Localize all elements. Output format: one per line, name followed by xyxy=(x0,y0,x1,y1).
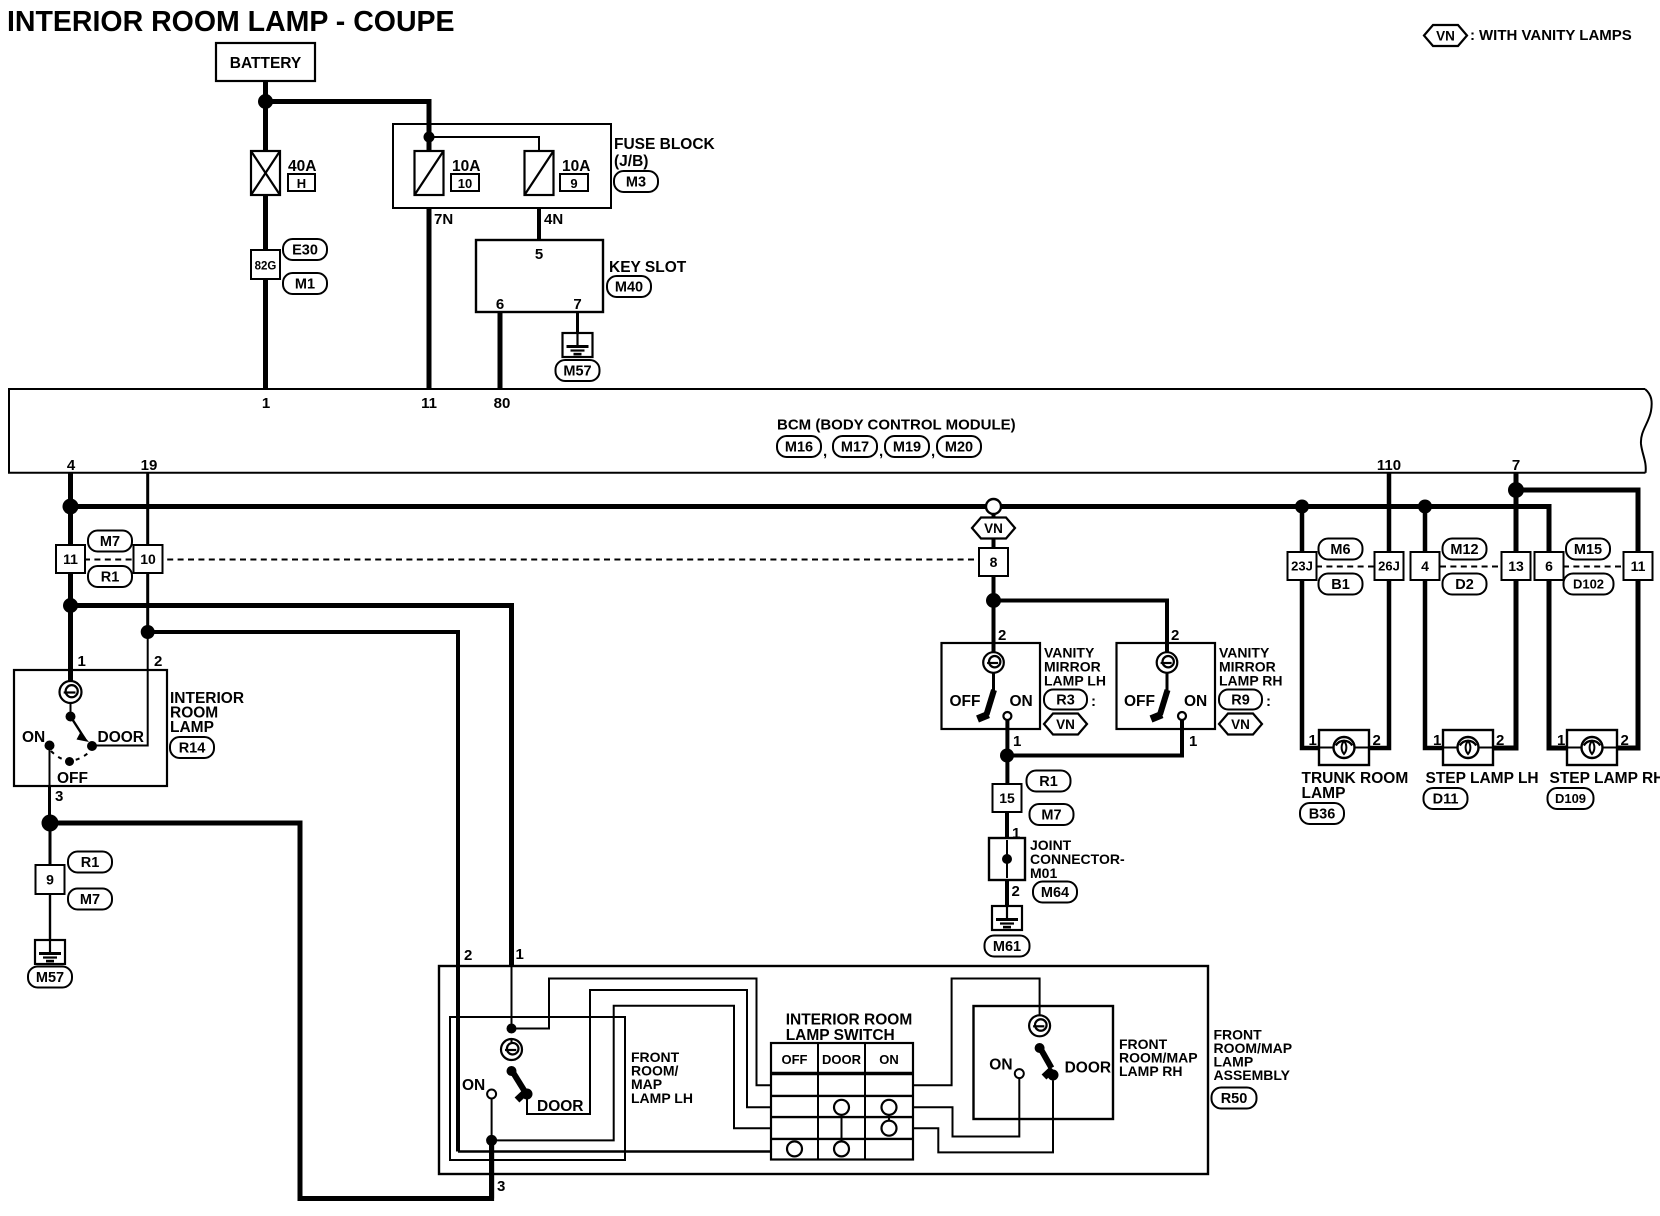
svg-text:10A: 10A xyxy=(562,158,590,175)
svg-text:ON: ON xyxy=(1184,693,1207,710)
svg-text:ON: ON xyxy=(22,729,45,746)
svg-text:LAMP: LAMP xyxy=(1302,785,1346,802)
svg-text:11: 11 xyxy=(421,395,437,412)
svg-text:1: 1 xyxy=(1189,733,1197,750)
svg-text:1: 1 xyxy=(78,653,86,670)
svg-text:,: , xyxy=(823,443,827,460)
svg-text:26J: 26J xyxy=(1378,559,1400,574)
svg-text:6: 6 xyxy=(1545,558,1553,574)
svg-text:R1: R1 xyxy=(1039,774,1058,790)
svg-text:2: 2 xyxy=(1171,627,1179,644)
svg-text:H: H xyxy=(297,176,306,191)
svg-text:INTERIOR ROOM: INTERIOR ROOM xyxy=(786,1012,913,1029)
svg-text:R9: R9 xyxy=(1231,693,1250,709)
svg-text:23J: 23J xyxy=(1291,559,1313,574)
svg-text:STEP LAMP RH: STEP LAMP RH xyxy=(1550,770,1660,787)
svg-text:2: 2 xyxy=(1373,732,1381,749)
svg-text:M12: M12 xyxy=(1450,542,1478,558)
svg-text:DOOR: DOOR xyxy=(537,1098,584,1115)
svg-text:6: 6 xyxy=(496,296,504,313)
svg-text:D11: D11 xyxy=(1433,792,1459,808)
svg-text:7N: 7N xyxy=(434,211,453,228)
svg-text:VN: VN xyxy=(984,521,1003,536)
svg-text:BATTERY: BATTERY xyxy=(230,55,302,72)
svg-text:OFF: OFF xyxy=(782,1052,808,1067)
svg-text::: : xyxy=(1266,693,1271,710)
svg-text:STEP LAMP LH: STEP LAMP LH xyxy=(1426,770,1539,787)
svg-text:11: 11 xyxy=(63,551,78,567)
svg-text:3: 3 xyxy=(55,788,63,805)
svg-text:WITH VANITY LAMPS: WITH VANITY LAMPS xyxy=(1479,27,1632,44)
svg-text:M6: M6 xyxy=(1330,542,1350,558)
svg-text:LAMP RH: LAMP RH xyxy=(1119,1063,1183,1079)
svg-text:1: 1 xyxy=(1433,732,1441,749)
svg-text:3: 3 xyxy=(497,1178,505,1195)
svg-text:R1: R1 xyxy=(81,855,100,871)
svg-text:9: 9 xyxy=(570,176,577,191)
svg-text:2: 2 xyxy=(464,947,472,964)
svg-text:ON: ON xyxy=(462,1077,485,1094)
svg-text:40A: 40A xyxy=(288,158,316,175)
svg-text:80: 80 xyxy=(494,395,511,412)
svg-text:VN: VN xyxy=(1056,717,1075,732)
svg-text:1: 1 xyxy=(262,395,270,412)
svg-text:DOOR: DOOR xyxy=(98,729,145,746)
svg-text:INTERIOR ROOM LAMP - COUPE: INTERIOR ROOM LAMP - COUPE xyxy=(7,6,455,38)
svg-text:DOOR: DOOR xyxy=(822,1052,862,1067)
svg-text:M7: M7 xyxy=(1041,808,1061,824)
svg-text:M01: M01 xyxy=(1030,865,1057,881)
svg-text:M20: M20 xyxy=(945,440,973,456)
svg-text:ON: ON xyxy=(1010,693,1033,710)
svg-text:D2: D2 xyxy=(1455,577,1474,593)
svg-text:ASSEMBLY: ASSEMBLY xyxy=(1214,1067,1291,1083)
svg-text:8: 8 xyxy=(990,554,998,570)
svg-text:82G: 82G xyxy=(255,261,277,273)
svg-text:M15: M15 xyxy=(1574,542,1602,558)
svg-text:LAMP: LAMP xyxy=(170,719,214,736)
svg-text:1: 1 xyxy=(1557,732,1565,749)
svg-text:VN: VN xyxy=(1436,28,1455,43)
svg-text:M7: M7 xyxy=(80,892,100,908)
svg-text:ON: ON xyxy=(879,1052,899,1067)
svg-text:1: 1 xyxy=(516,946,524,963)
svg-text:B36: B36 xyxy=(1309,807,1336,823)
svg-text:10A: 10A xyxy=(452,158,480,175)
svg-text:10: 10 xyxy=(140,551,156,567)
svg-text:2: 2 xyxy=(1621,732,1629,749)
svg-text:4: 4 xyxy=(67,457,76,474)
svg-text:R3: R3 xyxy=(1056,693,1075,709)
svg-text:BCM (BODY CONTROL MODULE): BCM (BODY CONTROL MODULE) xyxy=(777,417,1016,434)
svg-text:M64: M64 xyxy=(1041,885,1069,901)
svg-text:LAMP SWITCH: LAMP SWITCH xyxy=(786,1027,895,1044)
svg-text:9: 9 xyxy=(46,872,54,888)
svg-text:VN: VN xyxy=(1231,717,1250,732)
svg-text:M57: M57 xyxy=(563,364,591,380)
svg-text:,: , xyxy=(931,443,935,460)
svg-text:110: 110 xyxy=(1377,457,1401,474)
svg-text:M1: M1 xyxy=(295,277,315,293)
svg-text:4: 4 xyxy=(1421,558,1429,574)
svg-text:R1: R1 xyxy=(101,570,120,586)
svg-text:B1: B1 xyxy=(1331,577,1350,593)
svg-text:R14: R14 xyxy=(179,741,206,757)
svg-text:KEY SLOT: KEY SLOT xyxy=(609,259,687,276)
svg-text:D109: D109 xyxy=(1555,791,1586,806)
svg-text:OFF: OFF xyxy=(57,770,88,787)
svg-text:LAMP RH: LAMP RH xyxy=(1219,673,1283,689)
svg-text:M3: M3 xyxy=(626,175,646,191)
svg-text:M7: M7 xyxy=(100,534,120,550)
svg-text:2: 2 xyxy=(154,653,162,670)
svg-text:(J/B): (J/B) xyxy=(614,153,648,170)
svg-text:19: 19 xyxy=(141,457,158,474)
svg-text:ON: ON xyxy=(989,1057,1012,1074)
svg-text:FUSE BLOCK: FUSE BLOCK xyxy=(614,136,716,153)
svg-text:M40: M40 xyxy=(615,280,643,296)
svg-text:7: 7 xyxy=(1512,457,1520,474)
svg-text:2: 2 xyxy=(1496,732,1504,749)
svg-text:LAMP LH: LAMP LH xyxy=(1044,673,1106,689)
svg-text:E30: E30 xyxy=(292,243,318,259)
svg-text:13: 13 xyxy=(1508,558,1524,574)
svg-text:DOOR: DOOR xyxy=(1065,1060,1112,1077)
svg-text:OFF: OFF xyxy=(950,693,981,710)
svg-text:M16: M16 xyxy=(785,440,813,456)
svg-text:1: 1 xyxy=(1013,733,1021,750)
svg-text:M17: M17 xyxy=(841,440,869,456)
svg-text:7: 7 xyxy=(573,296,581,313)
svg-text:D102: D102 xyxy=(1573,577,1604,592)
svg-text:1: 1 xyxy=(1012,825,1020,842)
svg-text:M19: M19 xyxy=(893,440,921,456)
svg-text:5: 5 xyxy=(535,246,543,263)
svg-text:15: 15 xyxy=(999,790,1015,806)
svg-text:2: 2 xyxy=(998,627,1006,644)
svg-text:10: 10 xyxy=(458,176,472,191)
svg-text:4N: 4N xyxy=(544,211,563,228)
svg-text:R50: R50 xyxy=(1221,1091,1248,1107)
svg-text::: : xyxy=(1091,693,1096,710)
svg-text:OFF: OFF xyxy=(1124,693,1155,710)
svg-text::: : xyxy=(1470,27,1475,44)
svg-text:M61: M61 xyxy=(993,939,1021,955)
svg-text:LAMP LH: LAMP LH xyxy=(631,1090,693,1106)
svg-text:1: 1 xyxy=(1309,732,1317,749)
svg-text:,: , xyxy=(879,443,883,460)
svg-text:11: 11 xyxy=(1631,558,1646,574)
svg-text:M57: M57 xyxy=(36,970,64,986)
svg-text:2: 2 xyxy=(1012,883,1020,900)
